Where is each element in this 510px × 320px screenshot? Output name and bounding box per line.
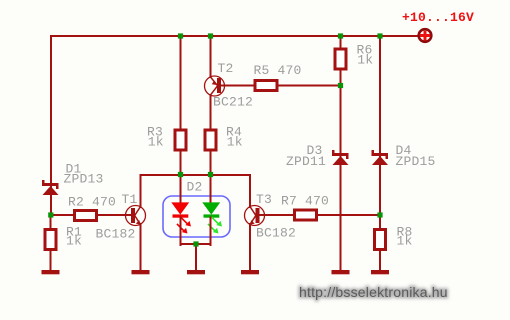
node junction rail/green LED xyxy=(208,172,213,177)
svg-text:R5 470: R5 470 xyxy=(254,63,302,78)
svg-text:BC182: BC182 xyxy=(96,227,136,242)
node junction D1/R1/R2 xyxy=(48,212,53,217)
svg-text:ZPD11: ZPD11 xyxy=(286,154,326,169)
resistor R5 xyxy=(255,81,277,91)
label R4 1k xyxy=(226,125,243,150)
wire collector rail T1-T3 xyxy=(141,174,251,176)
node junction LED cathodes xyxy=(193,241,198,246)
transistor T3 BC182 xyxy=(245,206,265,226)
wire T2 collector column (top) xyxy=(210,36,212,77)
wire R8 top lead xyxy=(379,215,381,230)
supply terminal +10...16V xyxy=(419,29,432,42)
resistor R8 xyxy=(375,230,386,250)
wire D3 column down to ground xyxy=(340,69,342,271)
transistor T1 BC182 xyxy=(126,206,146,226)
wire D4 column xyxy=(379,36,381,216)
label BC182 (T1) xyxy=(96,227,136,242)
label T2 xyxy=(218,61,234,76)
svg-text:http://bsselektronika.hu: http://bsselektronika.hu xyxy=(299,284,448,300)
svg-text:+10...16V: +10...16V xyxy=(402,10,474,25)
svg-text:D2: D2 xyxy=(187,180,203,195)
wire green LED cathode lead xyxy=(210,218,212,246)
label R8 1k xyxy=(397,225,413,249)
wire LED cathode bus xyxy=(181,243,211,245)
resistor R1 xyxy=(45,230,56,250)
ground under R8 xyxy=(371,270,389,274)
svg-text:R2 470: R2 470 xyxy=(68,195,116,210)
wire top supply rail xyxy=(51,35,418,37)
label BC182 (T3) xyxy=(256,226,296,241)
svg-text:T3: T3 xyxy=(256,192,272,207)
wire R7 to D4/R8 node xyxy=(318,214,380,216)
label D4 ZPD15 xyxy=(396,143,436,169)
label R1 1k xyxy=(66,225,82,249)
node junction rail/red LED xyxy=(178,172,183,177)
zener diode D3 ZPD11 xyxy=(332,150,349,165)
label R2 470 xyxy=(68,195,116,210)
svg-text:BC212: BC212 xyxy=(213,95,253,110)
label D3 ZPD11 xyxy=(286,143,326,169)
wire green LED anode lead xyxy=(210,175,212,203)
node junction R7/D4/R8 xyxy=(377,212,382,217)
watermark http://bsselektronika.hu xyxy=(299,284,448,300)
ground under D2 xyxy=(187,270,205,274)
ground under T3 xyxy=(241,270,259,274)
wire T1 collector up xyxy=(140,175,142,207)
wire T2 emitter to R4 xyxy=(210,95,212,175)
node junction top rail / R3 xyxy=(178,33,183,38)
svg-text:T2: T2 xyxy=(218,61,234,76)
wire T3 base to R7 xyxy=(260,214,295,216)
wire T3 collector up xyxy=(249,175,251,207)
node junction top rail / T2-R4 xyxy=(208,33,213,38)
svg-text:ZPD15: ZPD15 xyxy=(396,154,436,169)
LED D2 red half xyxy=(171,202,191,233)
wire T1 emitter to ground xyxy=(140,224,142,271)
label D2 xyxy=(187,180,203,195)
wire T2 base to R5 xyxy=(221,85,254,87)
label R3 1k xyxy=(147,125,164,150)
svg-text:1k: 1k xyxy=(357,53,373,68)
wire R2 west lead xyxy=(51,214,75,216)
wire red LED cathode lead xyxy=(180,218,182,246)
resistor R7 xyxy=(295,210,317,220)
label R5 470 xyxy=(254,63,302,78)
label BC212 xyxy=(213,95,253,110)
svg-text:1k: 1k xyxy=(397,234,413,249)
node junction top rail / R6 xyxy=(338,33,343,38)
ground under R1 xyxy=(42,270,60,274)
label R6 1k xyxy=(357,43,374,68)
wire left rail down to D1/R2 node xyxy=(50,36,52,216)
label T1 xyxy=(122,192,138,207)
node junction R5/R6/D3 xyxy=(338,83,343,88)
ground under D3 xyxy=(332,270,350,274)
node junction top rail / D4 xyxy=(377,33,382,38)
wire R1 top lead xyxy=(50,215,52,230)
wire R1 bottom lead xyxy=(50,251,52,271)
wire T3 emitter to ground xyxy=(249,224,251,271)
wire D2 to ground xyxy=(195,244,197,271)
wire R2 east lead to T1 base xyxy=(98,214,131,216)
LED D2 package box xyxy=(163,196,230,237)
ground under T1 xyxy=(132,270,150,274)
label D1 ZPD13 xyxy=(64,162,104,187)
svg-text:1k: 1k xyxy=(227,135,243,150)
wire R8 bottom lead xyxy=(379,251,381,271)
resistor R6 xyxy=(335,49,346,69)
svg-text:ZPD13: ZPD13 xyxy=(64,172,104,187)
svg-text:T1: T1 xyxy=(122,192,138,207)
label R7 470 xyxy=(281,194,329,209)
wire R5 to R6/D3 node xyxy=(279,85,341,87)
svg-text:1k: 1k xyxy=(148,135,164,150)
label +10...16V xyxy=(402,10,474,25)
wire R6 top lead xyxy=(340,36,342,49)
svg-text:1k: 1k xyxy=(66,234,82,249)
wire R3 column xyxy=(180,36,182,175)
label T3 xyxy=(256,192,272,207)
resistor R2 xyxy=(75,211,97,221)
wire red LED anode lead xyxy=(180,175,182,203)
zener diode D1 ZPD13 xyxy=(42,180,59,195)
zener diode D4 ZPD15 xyxy=(372,150,389,165)
svg-text:BC182: BC182 xyxy=(256,226,296,241)
resistor R3 xyxy=(175,130,186,150)
svg-text:R7 470: R7 470 xyxy=(281,194,329,209)
LED D2 green half xyxy=(202,202,222,233)
transistor T2 BC212 xyxy=(205,76,225,96)
resistor R4 xyxy=(205,130,216,150)
